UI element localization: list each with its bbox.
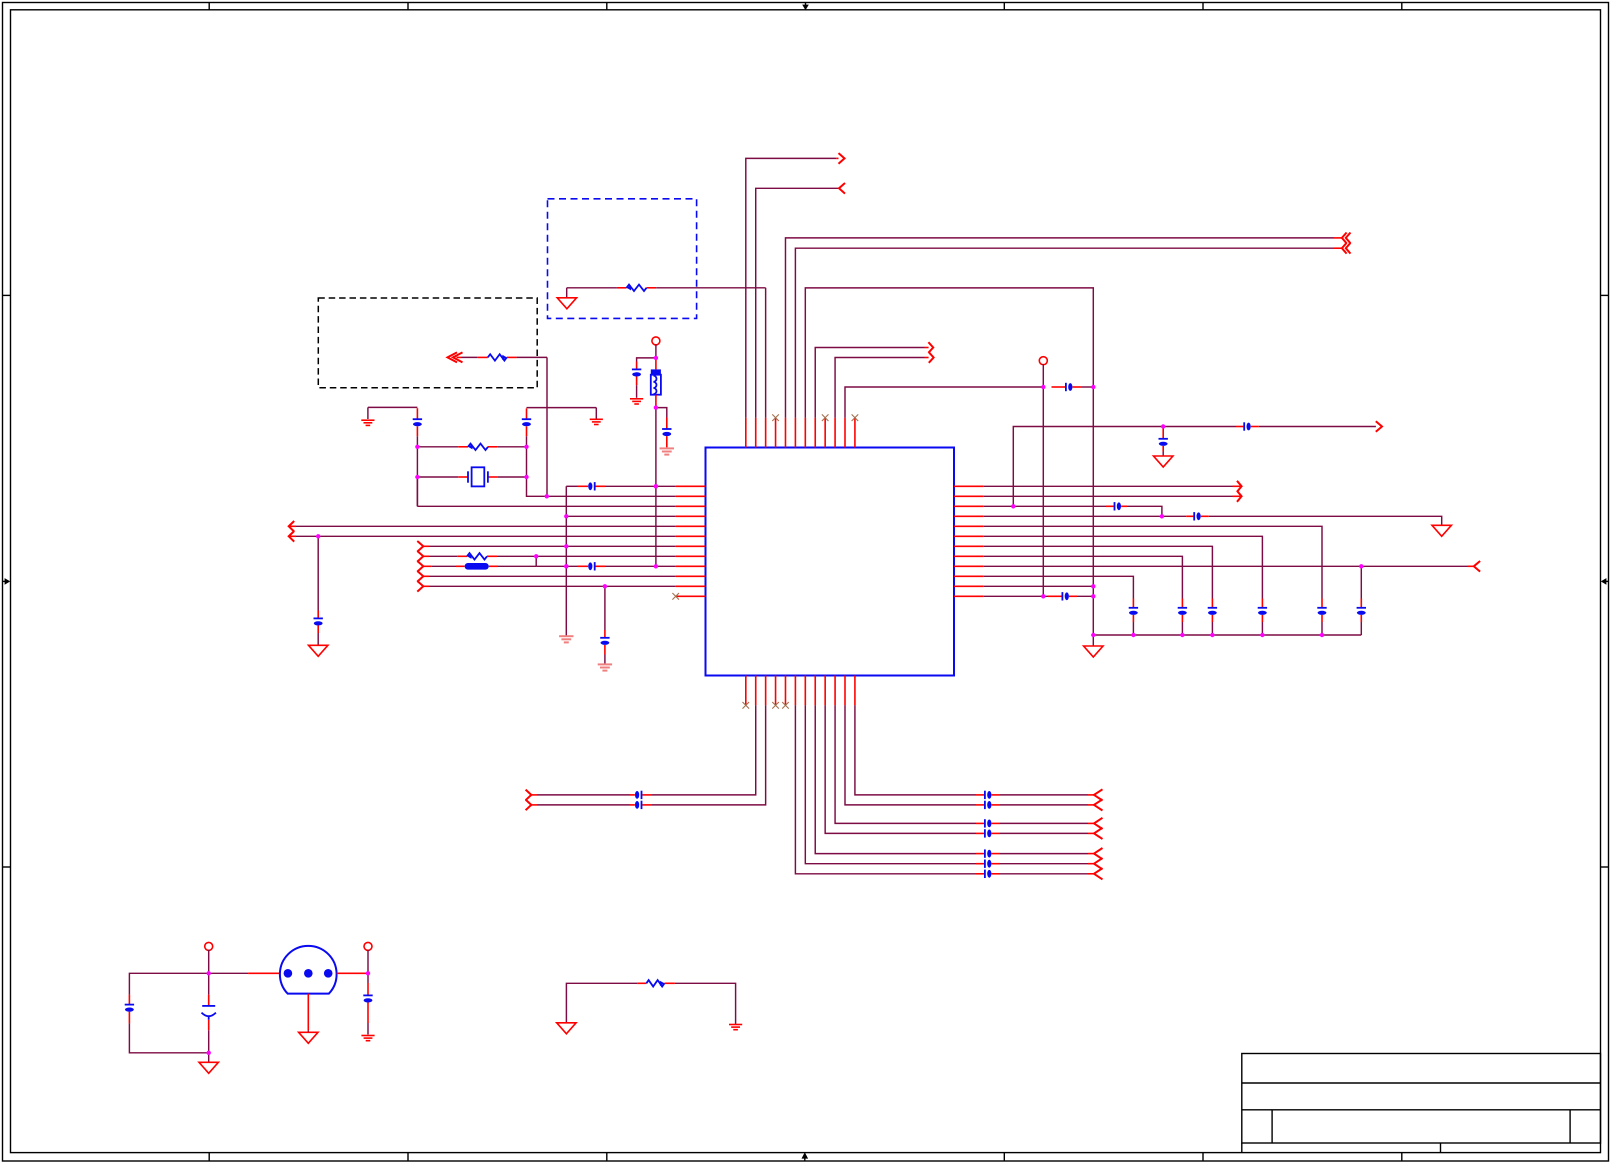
junction xyxy=(1011,504,1015,508)
wire row R3 xyxy=(984,506,1162,516)
capacitor C6 xyxy=(1258,599,1267,623)
off-page double arrow xyxy=(1342,243,1351,254)
capacitor C3 xyxy=(632,362,641,398)
off-page arrow xyxy=(929,352,934,363)
off-page arrow xyxy=(417,541,423,552)
off-page arrow xyxy=(1474,561,1480,572)
wire R9 branch to C10 xyxy=(1360,566,1362,635)
resistor R1 leads xyxy=(417,446,526,448)
wire row L5 xyxy=(289,525,676,527)
wire pin T1 to off-page xyxy=(746,158,839,417)
junction xyxy=(524,445,528,449)
no-connect left pin 12 xyxy=(672,593,679,600)
resistor R5 leads xyxy=(566,983,735,1024)
off-page arrow xyxy=(526,790,532,801)
capacitor xyxy=(630,801,652,809)
capacitor C4 xyxy=(662,418,671,448)
ground GND8 xyxy=(590,419,603,424)
capacitor C16 xyxy=(1159,428,1168,457)
resistor R3 xyxy=(467,553,487,559)
junction xyxy=(1091,633,1095,637)
wire L11 branch to C12 xyxy=(604,586,606,664)
capacitor C25 xyxy=(976,829,1000,837)
wire row to C8 xyxy=(984,556,1183,635)
capacitor C26 xyxy=(976,849,1000,857)
wire left ground rail xyxy=(565,486,567,636)
wire bottom row C26 xyxy=(815,705,1094,853)
wire to GND12 xyxy=(208,1053,210,1063)
wire row R9 xyxy=(984,565,1474,567)
capacitor C15 xyxy=(1236,422,1259,430)
off-page arrow right xyxy=(839,153,845,164)
junction xyxy=(564,514,568,518)
wire pin T8 out xyxy=(815,348,928,418)
capacitor C17 xyxy=(1106,502,1127,510)
capacitor C9 xyxy=(1129,599,1138,623)
wire VF left branch xyxy=(637,358,656,362)
junction xyxy=(1161,424,1165,428)
ground GND6 xyxy=(598,664,612,670)
off-page arrow xyxy=(928,342,933,353)
capacitor C12 xyxy=(600,630,609,655)
wire VP1 to J1 xyxy=(209,972,280,974)
off-page arrow xyxy=(1237,491,1242,502)
junction xyxy=(654,564,658,568)
ground GND11 xyxy=(660,448,674,454)
terminal VP2 xyxy=(364,942,372,950)
junction xyxy=(545,494,549,498)
wire ground rail stem xyxy=(1092,635,1094,646)
junction xyxy=(603,584,607,588)
capacitor C2 xyxy=(522,408,531,446)
wire row L9 xyxy=(423,565,675,567)
junction xyxy=(1091,594,1095,598)
wire bypass bus xyxy=(1093,634,1361,636)
capacitor C21 xyxy=(578,562,606,570)
resistor R2 leads xyxy=(567,287,766,289)
off-page arrow xyxy=(1094,868,1103,879)
junction xyxy=(524,475,528,479)
capacitor C1 xyxy=(413,408,422,447)
junction xyxy=(1359,564,1363,568)
junction xyxy=(1041,385,1045,389)
inductor L1 xyxy=(651,369,661,394)
capacitor C28 xyxy=(976,870,1000,878)
capacitor C10 xyxy=(1357,599,1366,623)
IC left pins xyxy=(676,486,706,596)
wire VP2 stem xyxy=(367,950,369,974)
wire bottom row C28 xyxy=(795,705,1094,874)
crystal Y1 xyxy=(468,467,488,486)
resistor R4 leads xyxy=(457,356,548,358)
junction xyxy=(564,544,568,548)
dashed box (black) xyxy=(318,298,537,388)
terminal VT xyxy=(1039,357,1047,365)
wire pin T2 to off-page xyxy=(756,188,839,417)
wire ground rail down xyxy=(1092,387,1094,635)
junction xyxy=(564,564,568,568)
resistor R1 xyxy=(468,444,488,450)
IC right pins xyxy=(954,486,984,596)
off-page arrow xyxy=(1094,799,1103,810)
resistor R2 xyxy=(627,285,647,291)
junction xyxy=(415,445,419,449)
junction xyxy=(1320,633,1324,637)
wire row R12 xyxy=(984,595,1094,597)
off-page arrow xyxy=(1094,858,1103,869)
off-page arrow xyxy=(417,551,423,562)
dashed box (blue) xyxy=(548,199,697,319)
junction xyxy=(1091,385,1095,389)
bottom center mark xyxy=(802,1152,809,1161)
capacitor C24 xyxy=(976,819,1000,827)
junction xyxy=(654,356,658,360)
wire row R1 xyxy=(984,485,1241,487)
ground GND16 xyxy=(729,1025,742,1030)
wire J1 gnd stem xyxy=(307,994,309,1033)
capacitor C8 xyxy=(1178,599,1187,623)
capacitor C27 xyxy=(976,860,1000,868)
wire pin T5 bus xyxy=(785,238,1341,418)
no-connect bottom pin 1 xyxy=(743,702,750,709)
wire row R11 to ground rail xyxy=(984,585,1094,587)
off-page arrow xyxy=(1094,818,1103,829)
no-connect top pin 4 xyxy=(772,414,779,421)
resistor R5 xyxy=(646,980,664,986)
wire L1 node right branch xyxy=(656,408,667,418)
capacitor C18 xyxy=(1186,512,1209,520)
wire terminal stem xyxy=(1042,364,1044,387)
off-page double arrow xyxy=(1342,233,1351,244)
wire row to C7 xyxy=(984,546,1213,635)
off-page arrow xyxy=(526,800,532,811)
off-page arrow right xyxy=(1376,421,1382,432)
wire row L7 xyxy=(423,545,675,547)
junction xyxy=(1180,633,1184,637)
ground GND5 xyxy=(309,645,328,656)
wire VP1 stem xyxy=(208,950,210,974)
left edge zone ticks xyxy=(3,295,11,867)
capacitor C30 xyxy=(202,1006,216,1020)
junction xyxy=(654,484,658,488)
wire row L11 xyxy=(423,585,675,587)
wire row R2 xyxy=(984,495,1241,497)
wire VP1 left branch xyxy=(129,973,208,994)
junction xyxy=(207,1051,211,1055)
wire xtal gnd stem left xyxy=(367,407,369,419)
capacitor C5 xyxy=(1317,599,1326,623)
wire bottom row C23 xyxy=(845,705,1094,805)
capacitor C30 lead xyxy=(208,1020,210,1053)
ground GND4 xyxy=(559,636,573,642)
inductor L1 lead top xyxy=(655,358,657,370)
wire L6 branch to C11 xyxy=(317,536,319,645)
IC top pins xyxy=(746,418,855,448)
wire xtal top left xyxy=(368,406,418,408)
ground GND1 xyxy=(1084,646,1103,657)
terminal VP1 xyxy=(205,942,213,950)
ground GND10 xyxy=(630,399,643,404)
wire bottom row C27 xyxy=(805,705,1094,863)
junction xyxy=(1131,633,1135,637)
ground GND15 xyxy=(557,1023,576,1034)
wire supply rail xyxy=(1013,427,1376,507)
ground GND7 xyxy=(361,420,374,425)
wire row to C5 xyxy=(984,526,1322,635)
ground GND2 xyxy=(1154,456,1173,467)
top center mark xyxy=(802,3,809,11)
title block xyxy=(1242,1054,1601,1153)
ground GND3 xyxy=(1432,525,1451,536)
junction xyxy=(415,475,419,479)
wire row L10 xyxy=(423,575,675,577)
wire R8-R9 link xyxy=(535,556,537,566)
capacitor xyxy=(630,791,652,799)
left center mark xyxy=(3,578,11,585)
wire bottom row C25 xyxy=(825,705,1094,833)
connector J1 xyxy=(280,946,337,994)
capacitor C23 xyxy=(976,801,1000,809)
capacitor C20 xyxy=(578,482,606,490)
no-connect top pin 12 xyxy=(852,414,859,421)
wire row to C6 xyxy=(984,536,1263,635)
IC bottom pins xyxy=(746,676,855,706)
junction xyxy=(1260,633,1264,637)
wire row L8 xyxy=(423,555,675,557)
off-page arrow xyxy=(1094,789,1103,800)
off-page arrow xyxy=(1237,481,1242,492)
junction xyxy=(207,971,211,975)
no-connect top pin 9 xyxy=(822,414,829,421)
no-connect bottom pin 5 xyxy=(782,702,789,709)
wire row L3 xyxy=(417,477,675,506)
wire xtal right node xyxy=(526,447,528,477)
wire row L4 xyxy=(566,515,675,517)
off-page arrow left xyxy=(839,183,845,194)
wire pin T6 bus xyxy=(795,248,1342,418)
IC U1 xyxy=(706,448,955,676)
wire bottom row C22 xyxy=(855,705,1094,795)
off-page double arrow xyxy=(448,352,463,362)
resistor R4 xyxy=(488,354,507,360)
wire xtal top right xyxy=(527,408,597,419)
junction xyxy=(1160,514,1164,518)
off-page arrow xyxy=(1094,848,1103,859)
ground GND14 xyxy=(361,1036,374,1041)
wire J1 right xyxy=(337,972,368,974)
wire bottom row C24 xyxy=(835,705,1094,823)
capacitor C14 xyxy=(1052,383,1094,391)
wire VP1 mid branch xyxy=(208,973,210,1006)
wire pin T7 to ground rail xyxy=(805,288,1093,418)
wire pin T10 out xyxy=(835,358,929,418)
wire bottom-left row xyxy=(531,705,755,795)
wire bottom-left row xyxy=(531,705,765,805)
ground GND12 xyxy=(199,1062,218,1073)
wire R4 to row L2 xyxy=(546,357,548,496)
no-connect bottom pin 4 xyxy=(772,702,779,709)
junction xyxy=(564,564,568,568)
wire L1 node down xyxy=(655,408,657,567)
wire VT down to row12 xyxy=(1042,387,1044,596)
off-page arrow xyxy=(417,581,423,592)
wire VF stem xyxy=(655,344,657,358)
inductor L1 lead bottom xyxy=(655,395,657,408)
wire R2 gnd stem xyxy=(566,288,568,298)
off-page arrow xyxy=(289,531,295,542)
off-page arrow xyxy=(1094,828,1103,839)
wire row to C9 xyxy=(984,576,1134,635)
right edge zone ticks xyxy=(1601,295,1609,867)
terminal VF xyxy=(652,337,660,345)
junction xyxy=(1091,584,1095,588)
junction xyxy=(366,971,370,975)
junction xyxy=(316,534,320,538)
capacitor C19 xyxy=(1048,592,1077,600)
junction xyxy=(534,554,538,558)
capacitor C31 xyxy=(363,973,372,1034)
junction xyxy=(1210,633,1214,637)
capacitor C11 xyxy=(314,611,323,634)
junction xyxy=(1041,594,1045,598)
right center mark xyxy=(1601,578,1609,585)
capacitor C22 xyxy=(976,791,1000,799)
wire row R4 xyxy=(984,516,1442,525)
wire row L1 xyxy=(566,485,675,487)
inductor L2 xyxy=(465,563,489,570)
capacitor C7 xyxy=(1208,599,1217,623)
bottom edge zone ticks xyxy=(209,1153,1402,1161)
wire row L2 xyxy=(527,477,676,496)
off-page arrow xyxy=(417,561,423,572)
crystal Y1 leads xyxy=(417,476,526,478)
top edge zone ticks xyxy=(209,3,1402,10)
off-page arrow xyxy=(289,521,295,532)
ground GND9 xyxy=(557,298,576,309)
wire pin T3 down xyxy=(765,288,767,418)
wire xtal left node xyxy=(416,447,418,507)
capacitor C29 xyxy=(125,995,209,1053)
off-page arrow xyxy=(417,571,423,582)
wire row L6 xyxy=(289,535,676,537)
ground GND13 xyxy=(299,1032,318,1043)
junction xyxy=(654,484,658,488)
junction xyxy=(654,405,658,409)
wire pin T11 to node VT xyxy=(845,387,1043,418)
